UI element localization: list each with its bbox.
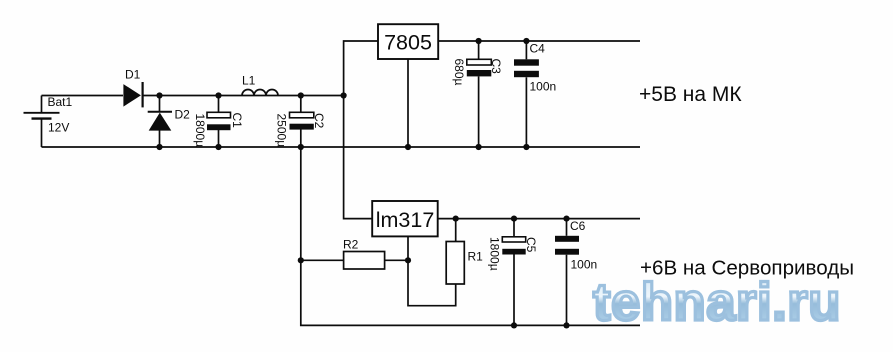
wire C1 top lead [218, 96, 220, 113]
wire D2 bottom lead [159, 130, 161, 147]
svg-text:R1: R1 [468, 250, 484, 264]
resistor R2 [343, 238, 385, 270]
wire R1 top lead [455, 219, 457, 242]
capacitor C1 [193, 112, 244, 147]
wire D1 cathode to node [143, 95, 344, 97]
battery Bat1 [24, 95, 73, 135]
svg-text:C4: C4 [530, 42, 546, 56]
node riser junction [341, 92, 347, 98]
diode D1 [123, 68, 142, 108]
inductor L1 [242, 74, 278, 96]
svg-text:D1: D1 [125, 68, 141, 82]
wire C2 bottom lead [300, 130, 302, 148]
svg-text:100n: 100n [530, 80, 557, 94]
svg-text:680µ: 680µ [452, 59, 466, 86]
svg-text:C5: C5 [524, 237, 538, 253]
wire riser to lm317 [344, 96, 373, 219]
svg-text:tehnari.ru: tehnari.ru [593, 273, 841, 332]
wire C5 bottom lead [513, 255, 515, 326]
node C5 top [511, 216, 517, 222]
wire battery left vertical [41, 96, 43, 113]
node C5 bottom [511, 322, 517, 328]
node C3 bottom [476, 144, 482, 150]
node R2 left [298, 257, 304, 263]
wire lm317 output rail [438, 218, 640, 220]
capacitor C5 [488, 237, 539, 271]
regulator U2 lm317 [372, 201, 438, 236]
wire mid rail [42, 146, 641, 148]
capacitor C6 [555, 219, 597, 272]
node R1 top [453, 216, 459, 222]
wire 7805 output rail [438, 40, 640, 42]
svg-text:D2: D2 [175, 108, 191, 122]
node C6 top [563, 216, 569, 222]
wire C6 top lead [566, 219, 568, 236]
diode D2 [148, 108, 190, 131]
svg-text:C6: C6 [570, 219, 586, 233]
wire lm317 adj pin [408, 236, 456, 305]
svg-text:+5В на МК: +5В на МК [639, 83, 742, 106]
wire top rail battery to D1 [42, 95, 124, 97]
svg-text:L1: L1 [242, 74, 256, 88]
wire C2 top lead [300, 96, 302, 113]
wire 7805 ground pin [407, 59, 409, 147]
wire C3 bottom lead [478, 77, 480, 148]
capacitor C2 [275, 112, 327, 147]
svg-text:C3: C3 [489, 59, 503, 75]
wire C3 top lead [478, 41, 480, 59]
svg-text:Bat1: Bat1 [48, 95, 73, 109]
wire C6 bottom lead [566, 255, 568, 326]
svg-text:C1: C1 [230, 113, 244, 129]
node R2 right adj [405, 257, 411, 263]
node dots [156, 38, 569, 329]
svg-text:lm317: lm317 [376, 208, 435, 232]
svg-text:C2: C2 [312, 113, 326, 129]
wire C5 top lead [513, 219, 515, 237]
svg-text:R2: R2 [343, 238, 359, 252]
node C4 bottom [523, 144, 529, 150]
wire C1 bottom lead [218, 130, 220, 147]
wire riser to 7805 [344, 41, 378, 96]
capacitor C3 [452, 59, 503, 86]
regulator U1 7805 [378, 24, 438, 59]
svg-text:2500µ: 2500µ [275, 114, 289, 148]
resistor R1 [446, 242, 483, 285]
svg-text:1800µ: 1800µ [193, 114, 207, 148]
svg-text:100n: 100n [571, 258, 598, 272]
node C1 top [215, 92, 221, 98]
node C3 top [476, 38, 482, 44]
node C1 bottom [215, 144, 221, 150]
svg-text:12V: 12V [48, 121, 69, 135]
wire D2 top lead [159, 96, 161, 113]
wire battery bottom vertical [41, 119, 43, 147]
svg-text:7805: 7805 [384, 31, 432, 55]
wire ground riser left branch [301, 147, 640, 325]
wire R2 left lead [301, 259, 344, 261]
node C4 top [523, 38, 529, 44]
wire C4 bottom lead [525, 77, 527, 147]
node C6 bottom [563, 322, 569, 328]
svg-text:1800µ: 1800µ [488, 237, 502, 271]
svg-text:+6В на Сервоприводы: +6В на Сервоприводы [640, 257, 854, 280]
capacitor C4 [514, 42, 556, 94]
node D1/D2 junction [156, 92, 162, 98]
wire C4 top lead [525, 41, 527, 59]
node 7805 gnd [405, 144, 411, 150]
node D2 bottom [156, 144, 162, 150]
watermark tehnari.ru [593, 273, 841, 332]
wire R2 right lead [385, 259, 408, 261]
node C2 top [298, 92, 304, 98]
node C2 bottom [298, 144, 304, 150]
